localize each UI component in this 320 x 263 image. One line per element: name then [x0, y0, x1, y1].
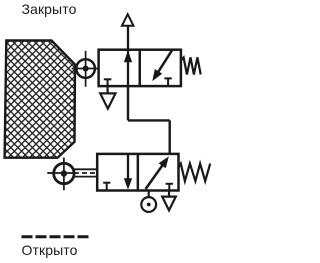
V2 left square flow path (down arrow) — [127, 154, 129, 187]
wire down to V2 top port — [168, 120, 170, 153]
V1 left square blocked port T — [104, 79, 112, 86]
cam (hatched block, closed position) — [5, 41, 75, 158]
valve V1 body (3/2 valve, top) — [99, 50, 181, 86]
V2 pressure source port (circle with dot) — [148, 191, 150, 198]
V2 left square blocked port T — [103, 183, 110, 191]
wire from V1 bottom port down — [127, 86, 129, 120]
V1 return spring — [181, 57, 201, 74]
svg-text:Открыто: Открыто — [22, 242, 78, 258]
V2 return spring — [179, 164, 211, 182]
roller actuator R1 (top valve) — [72, 51, 99, 87]
V1 exhaust port triangle — [106, 86, 108, 93]
V1 output port line with open arrow (to atmosphere up) — [127, 26, 129, 50]
wire horizontal run — [128, 119, 170, 121]
V2 right square flow path (diagonal arrow up-right) — [146, 165, 163, 189]
cam travel indicator (dashed line) — [22, 235, 89, 238]
plunger stem double line — [73, 168, 98, 170]
svg-text:Закрыто: Закрыто — [22, 1, 77, 17]
valve V2 body (3/2 valve, bottom) — [97, 154, 178, 191]
V2 right square blocked port T — [166, 184, 173, 191]
V2 exhaust port triangle — [168, 191, 170, 197]
V1 left square flow path (up arrow) — [127, 50, 129, 86]
roller actuator R2 (bottom valve) — [47, 158, 97, 191]
V1 right square blocked port T — [164, 78, 171, 86]
V1 right square flow path (diagonal arrow down-left) — [158, 50, 172, 72]
